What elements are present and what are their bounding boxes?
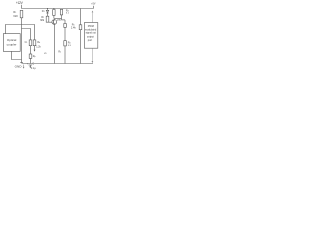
svg-text:68k: 68k xyxy=(40,19,45,22)
wire top +12V rail xyxy=(22,8,94,10)
svg-text:+: + xyxy=(27,63,29,66)
wire x30 mid xyxy=(30,46,32,54)
rail end stub xyxy=(92,6,94,9)
wire box top arrow up xyxy=(92,12,94,22)
svg-text:R1: R1 xyxy=(13,10,16,14)
bottom rail xyxy=(22,63,94,65)
svg-text:C1: C1 xyxy=(25,41,28,44)
svg-text:D1: D1 xyxy=(42,9,45,13)
resistor R1 620 xyxy=(20,10,23,17)
wire emitter down to rail xyxy=(54,24,56,63)
svg-text:Rp: Rp xyxy=(33,55,36,58)
wire x53.9 to H1 xyxy=(53,15,55,18)
resistor 2.4k x80.2 xyxy=(79,25,82,30)
wire diode to R 68k xyxy=(47,13,49,16)
PWM output port box xyxy=(84,23,97,49)
wire x30 to bottom rail xyxy=(30,58,32,63)
node +12V label xyxy=(16,1,24,5)
wire box bottom arrow down xyxy=(91,48,93,61)
svg-text:Rb: Rb xyxy=(37,41,40,44)
resistor on x30 lower xyxy=(29,54,32,58)
wire collector up xyxy=(54,19,56,20)
diode D1 xyxy=(46,10,48,12)
wire base xyxy=(48,21,53,23)
svg-text:1.2k: 1.2k xyxy=(36,45,41,48)
svg-text:signal out: signal out xyxy=(86,32,97,35)
capacitor branch component on x30 xyxy=(29,40,32,46)
ground label GND xyxy=(15,65,23,69)
svg-text:5.1: 5.1 xyxy=(66,13,70,15)
optocoupler box U1 xyxy=(3,34,20,52)
capacitor C 0.1u below rail xyxy=(29,64,32,66)
resistor 68k xyxy=(46,16,49,22)
resistor x66 lower 3.3 xyxy=(64,41,67,46)
wire rail to diode xyxy=(47,9,49,11)
resistor 1.2k on x34.2 xyxy=(33,40,36,46)
svg-text:3.3: 3.3 xyxy=(68,45,72,47)
resistor on x61.6 xyxy=(60,9,62,15)
svg-text:port: port xyxy=(88,39,93,42)
wire node line y28.1 xyxy=(22,29,31,40)
svg-text:+5V: +5V xyxy=(91,4,96,6)
wire x80.2 to bottom rail xyxy=(80,30,82,64)
svg-text:Rk: Rk xyxy=(58,51,61,53)
svg-text:0.1µ: 0.1µ xyxy=(31,67,36,70)
wire optocoupler bottom pin to ground node xyxy=(12,51,22,59)
wire collector horizontal H1 xyxy=(55,18,62,20)
resistor x66 upper xyxy=(64,24,67,28)
wire +12V stub xyxy=(21,5,23,9)
wire R1 vertical down long xyxy=(21,18,23,63)
wire x61.6 to H1 xyxy=(61,15,63,20)
wire x66 to bottom rail xyxy=(64,46,66,64)
svg-text:GND: GND xyxy=(15,65,23,69)
wire jog to x65 branch xyxy=(62,19,66,21)
wire x80.2 from rail xyxy=(80,9,82,25)
ground symbol xyxy=(20,62,23,64)
svg-text:PWM: PWM xyxy=(88,25,94,28)
svg-text:620: 620 xyxy=(13,14,18,18)
svg-text:R4: R4 xyxy=(68,41,71,44)
wire x34.2 below with down arrow xyxy=(34,46,36,50)
svg-text:Optical: Optical xyxy=(7,38,17,42)
svg-text:coupler: coupler xyxy=(7,43,17,47)
transistor VT1 xyxy=(52,20,57,25)
ground arrow xyxy=(23,65,25,67)
small label mid xyxy=(44,53,47,55)
wire node line y24.3 xyxy=(6,25,35,40)
junction dot x53.9 xyxy=(53,8,54,9)
svg-text:2.4k: 2.4k xyxy=(71,26,76,29)
label near emitter xyxy=(58,51,61,53)
svg-text:+12V: +12V xyxy=(16,1,24,5)
resistor on x53.9 xyxy=(53,10,55,16)
junction dot D1 xyxy=(47,8,48,9)
svg-text:VD: VD xyxy=(44,53,47,55)
wire x66 branch down xyxy=(64,20,66,24)
wire x66 mid xyxy=(64,27,66,40)
svg-text:output: output xyxy=(87,35,94,38)
